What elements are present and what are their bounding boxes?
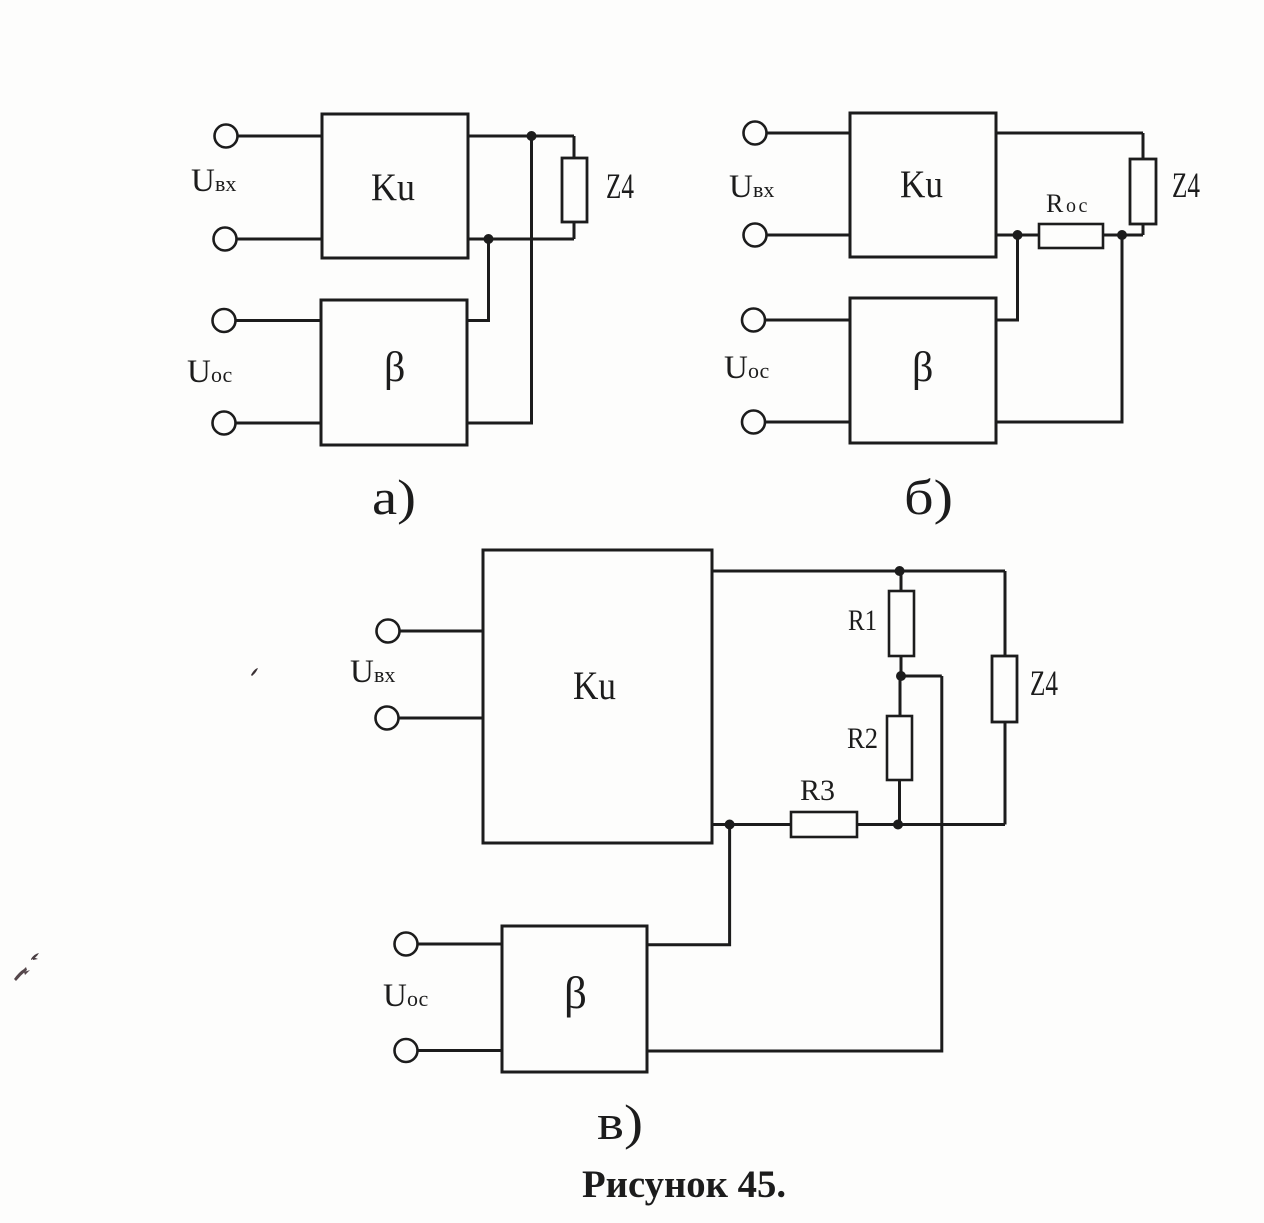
wire feedback input 2 (б): [766, 421, 851, 424]
caption Рисунок 45.: [582, 1163, 786, 1206]
wire Ku bottom output (в): [712, 823, 791, 826]
terminal feedback 1 (а): [213, 309, 236, 332]
label Uвх (а): [191, 163, 236, 199]
terminal input 1 (в): [377, 620, 400, 643]
svg-text:в): в): [597, 1094, 643, 1150]
svg-text:U: U: [729, 169, 753, 205]
wire input 2 (б): [767, 234, 850, 237]
wire Z4 bottom stub (б): [1142, 224, 1145, 235]
wire input 2 (а): [237, 238, 322, 241]
scan speck bird: [31, 953, 39, 960]
resistor R3 (в): [791, 812, 857, 837]
terminal input 1 (б): [744, 122, 767, 145]
resistor R1 (в): [889, 591, 914, 656]
svg-text:Z4: Z4: [606, 166, 634, 206]
wire from R1R2 node to long feedback line (в): [901, 675, 942, 678]
junction node top output (в): [895, 566, 905, 576]
wire input 2 (в): [399, 717, 483, 720]
label Z4 (а): [606, 166, 634, 206]
junction node between R1 and R2 (в): [896, 671, 906, 681]
label Z4 (б): [1172, 165, 1200, 205]
svg-text:U: U: [191, 163, 215, 199]
label R2 (в): [847, 722, 878, 755]
wire feedback input 2 (в): [418, 1049, 502, 1052]
label R1 (в): [848, 604, 877, 637]
wire feedback input 1 (б): [766, 319, 851, 322]
wire input 1 (б): [767, 132, 850, 135]
wire R1 bottom stub (в): [900, 656, 903, 676]
label Uос (б): [724, 350, 770, 386]
feedback block β (в): [502, 926, 647, 1072]
wire Ku top output (а): [468, 135, 574, 138]
svg-text:ос: ос: [1066, 195, 1089, 217]
label Ku (б): [900, 163, 943, 206]
label Z4 (в): [1030, 663, 1058, 703]
junction node top output (а): [527, 131, 537, 141]
junction node right of Roc (б): [1117, 230, 1127, 240]
svg-text:β: β: [384, 345, 405, 391]
amplifier block Ku (в): [483, 550, 712, 843]
resistor R2 (в): [887, 716, 912, 780]
svg-text:Ku: Ku: [371, 166, 415, 209]
load Z4 (а): [562, 158, 587, 222]
junction node bottom output (а): [484, 234, 494, 244]
wire Z4 top stub (б): [1142, 133, 1145, 159]
terminal feedback 2 (а): [213, 412, 236, 435]
wire R2 bottom stub (в): [898, 780, 901, 825]
svg-text:U: U: [187, 354, 211, 390]
amplifier block Ku (б): [850, 113, 996, 257]
wire Ku bottom output (б): [996, 234, 1039, 237]
wire Z4 bottom stub (а): [573, 222, 576, 239]
wire Z4 bottom stub (в): [1004, 722, 1007, 825]
wire R1 top stub (в): [900, 571, 903, 591]
svg-text:R2: R2: [847, 722, 878, 755]
wire long vertical to β lower port (в): [647, 676, 942, 1051]
label Uос (в): [383, 978, 429, 1014]
svg-text:R1: R1: [848, 604, 877, 637]
terminal feedback 2 (в): [395, 1039, 418, 1062]
wire feedback input 2 (а): [236, 422, 321, 425]
load Z4 (б): [1130, 159, 1156, 224]
svg-text:Z4: Z4: [1172, 165, 1200, 205]
svg-text:U: U: [350, 654, 374, 690]
svg-text:R3: R3: [800, 774, 835, 807]
scan speck tick: [14, 967, 30, 981]
svg-text:вх: вх: [753, 177, 774, 202]
svg-text:ос: ос: [407, 986, 429, 1011]
label а): [372, 469, 416, 525]
wire feedback input 1 (а): [236, 319, 321, 322]
wire R3 right to Z4 bottom (в): [857, 823, 1005, 826]
svg-text:Рисунок 45.: Рисунок 45.: [582, 1163, 786, 1206]
terminal feedback 1 (в): [395, 933, 418, 956]
amplifier block Ku (а): [322, 114, 468, 258]
svg-text:U: U: [724, 350, 748, 386]
wire input 1 (а): [238, 135, 322, 138]
wire Z4 top stub (в): [1004, 571, 1007, 656]
wire from left node to β upper port (б): [996, 235, 1018, 320]
wire from bottom node to β upper port (в): [647, 825, 730, 945]
wire feedback input 1 (в): [418, 943, 502, 946]
label β (в): [564, 968, 587, 1018]
wire Z4 top stub (а): [573, 136, 576, 158]
svg-text:вх: вх: [215, 171, 236, 196]
wire from bottom node to β upper port (а): [468, 239, 489, 321]
svg-text:а): а): [372, 469, 416, 525]
label в): [597, 1094, 643, 1150]
terminal input 2 (б): [744, 224, 767, 247]
label Ku (в): [573, 663, 616, 708]
label Uвх (в): [350, 654, 395, 690]
wire R2 top stub (в): [899, 676, 902, 716]
label Roc (б): [1046, 189, 1089, 218]
svg-text:б): б): [904, 469, 953, 525]
svg-text:β: β: [912, 345, 933, 391]
junction node R2 bottom (в): [893, 820, 903, 830]
wire input 1 (в): [400, 630, 483, 633]
terminal input 1 (а): [215, 125, 238, 148]
terminal feedback 2 (б): [742, 411, 765, 434]
label β (б): [912, 345, 933, 391]
terminal input 2 (в): [376, 707, 399, 730]
wire Ku top output (б): [996, 132, 1143, 135]
svg-text:вх: вх: [374, 662, 395, 687]
scan speck apostrophe: [251, 668, 258, 676]
svg-text:Ku: Ku: [900, 163, 943, 206]
feedback block β (б): [850, 298, 996, 443]
wire Roc right to Z4 (б): [1103, 234, 1143, 237]
terminal feedback 1 (б): [742, 309, 765, 332]
svg-text:ос: ос: [211, 362, 233, 387]
label Ku (а): [371, 166, 415, 209]
svg-text:Z4: Z4: [1030, 663, 1058, 703]
label Uос (а): [187, 354, 233, 390]
label β (а): [384, 345, 405, 391]
svg-text:Ku: Ku: [573, 663, 616, 708]
label б): [904, 469, 953, 525]
wire feedback from top node to β lower port (а): [468, 136, 532, 423]
svg-text:β: β: [564, 968, 587, 1018]
resistor Roc (б): [1039, 224, 1103, 248]
svg-text:ос: ос: [748, 358, 770, 383]
svg-text:R: R: [1046, 189, 1064, 218]
load Z4 (в): [992, 656, 1017, 722]
label Uвх (б): [729, 169, 774, 205]
wire from right node to β lower port (б): [996, 235, 1122, 422]
junction node bottom output (в): [725, 820, 735, 830]
feedback block β (а): [321, 300, 467, 445]
terminal input 2 (а): [214, 228, 237, 251]
svg-text:U: U: [383, 978, 407, 1014]
wire Ku top output (в): [712, 570, 1005, 573]
wire Ku bottom output (а): [468, 238, 574, 241]
label R3 (в): [800, 774, 835, 807]
junction node left of Roc (б): [1013, 230, 1023, 240]
